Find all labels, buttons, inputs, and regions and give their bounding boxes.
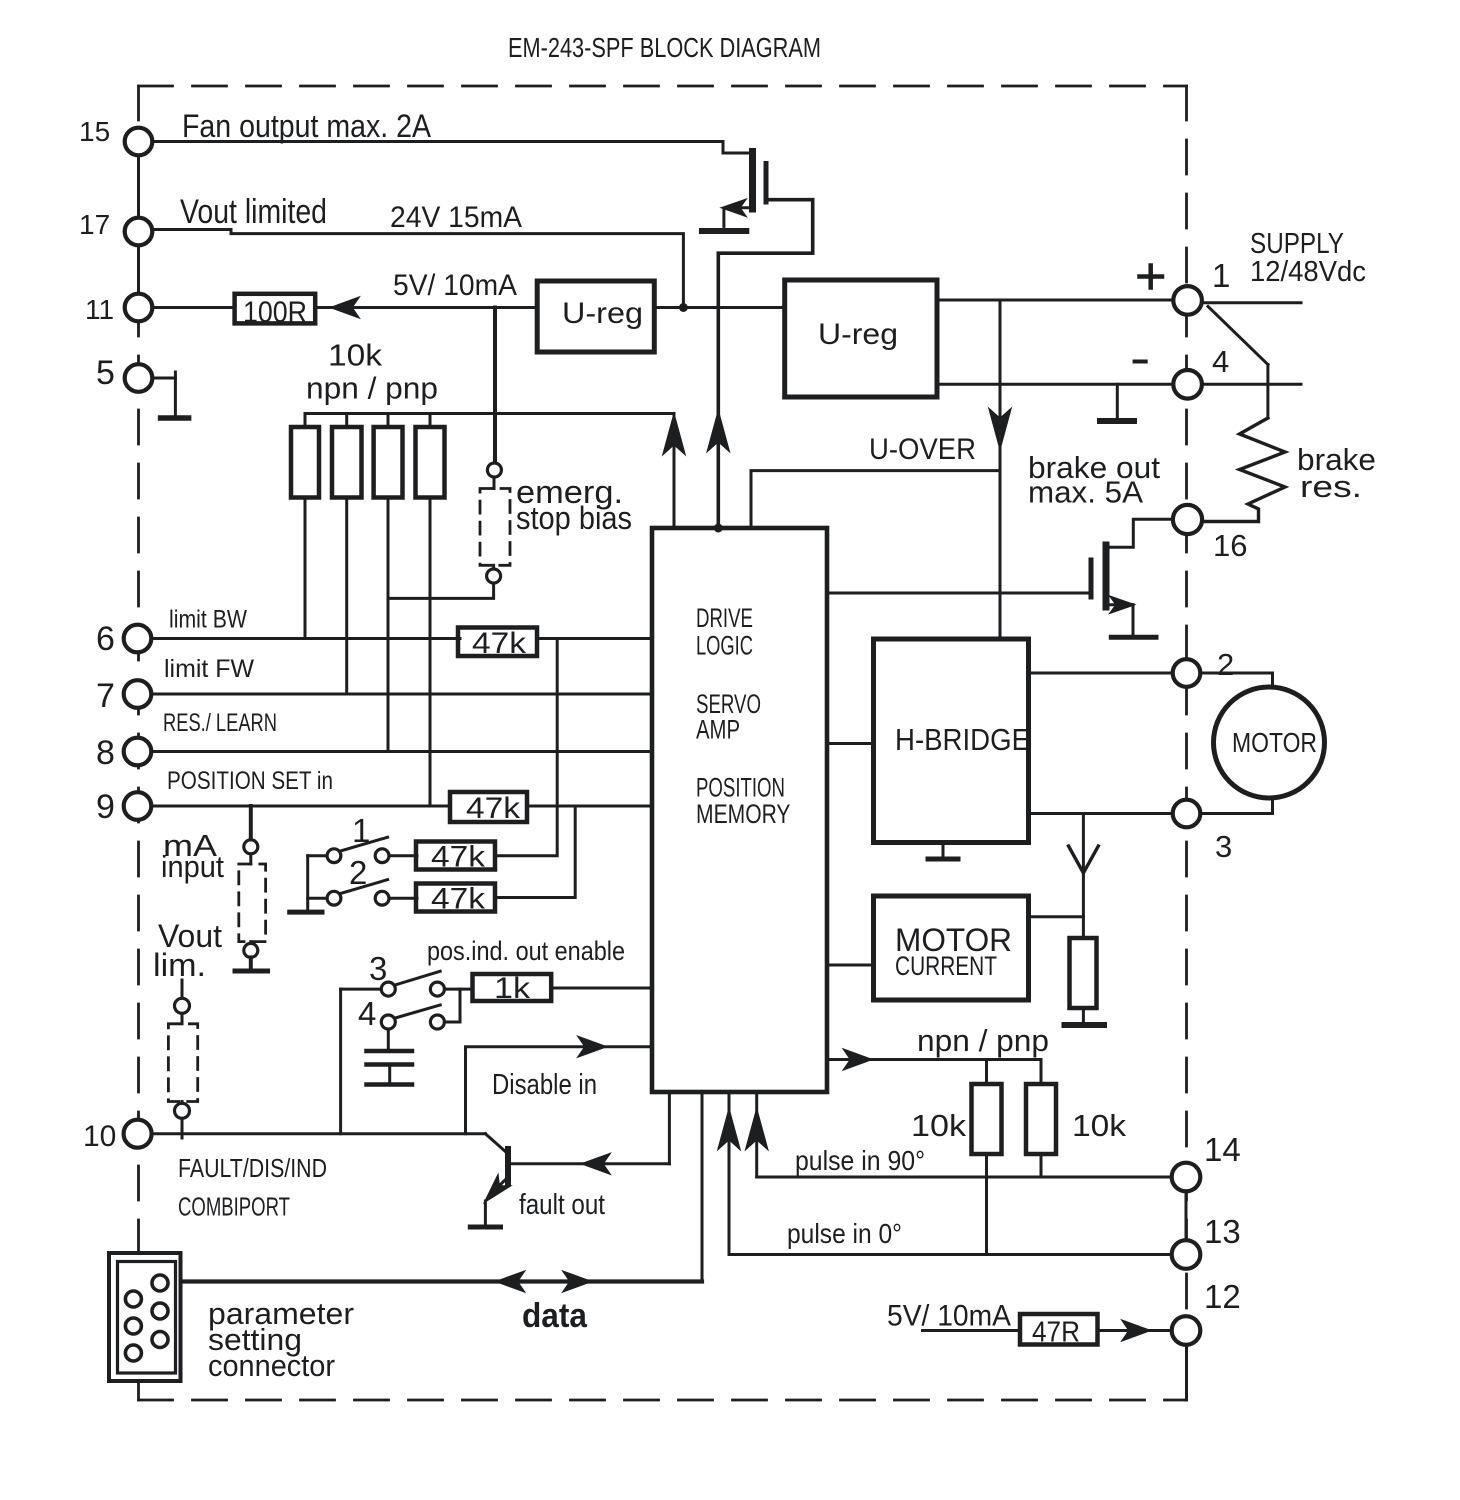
transistor Q1 fan switch channel bbox=[749, 152, 756, 210]
junction dot gate riser at drive logic top bbox=[714, 524, 723, 533]
wire R4 to pin9 line bbox=[429, 414, 432, 428]
wire pin4 minus rail bbox=[937, 383, 1174, 386]
wire mA input drop bbox=[249, 806, 253, 840]
transistor Q3 source with arrow bbox=[1106, 603, 1133, 606]
wire pin1 supply stub bbox=[1201, 301, 1302, 304]
svg-text:6: 6 bbox=[96, 620, 115, 658]
arrow up into drive logic (bus line) bbox=[665, 417, 684, 452]
resistor 10k R4 bbox=[416, 427, 445, 498]
svg-text:10k: 10k bbox=[911, 1108, 967, 1143]
label brake res. bbox=[1297, 442, 1376, 504]
ground fault out emitter bbox=[470, 1225, 500, 1230]
label 24V 15mA bbox=[390, 201, 522, 234]
wire switch3 common riser to combiport bbox=[339, 989, 342, 1134]
svg-text:connector: connector bbox=[208, 1348, 335, 1383]
svg-text:res.: res. bbox=[1300, 469, 1362, 504]
svg-text:5: 5 bbox=[96, 354, 115, 392]
svg-text:FAULT/DIS/IND: FAULT/DIS/IND bbox=[178, 1153, 327, 1183]
arrow left on 5V rail bbox=[333, 299, 357, 316]
svg-text:11: 11 bbox=[85, 294, 114, 325]
svg-text:7: 7 bbox=[96, 677, 115, 715]
svg-text:8: 8 bbox=[96, 734, 115, 772]
wire motor sense drop bbox=[1082, 814, 1085, 939]
wire H-BRIDGE to pin2 bbox=[1029, 672, 1174, 675]
svg-text:EM-243-SPF BLOCK DIAGRAM: EM-243-SPF BLOCK DIAGRAM bbox=[508, 32, 821, 63]
svg-text:24V 15mA: 24V 15mA bbox=[390, 201, 522, 234]
label Vout lim. bbox=[153, 918, 222, 983]
resistor 10k R3 bbox=[374, 427, 403, 498]
svg-text:LOGIC: LOGIC bbox=[696, 631, 753, 661]
wire pin15 fan output bbox=[152, 142, 750, 154]
svg-text:Vout limited: Vout limited bbox=[180, 193, 327, 231]
svg-text:10k: 10k bbox=[328, 338, 383, 373]
svg-text:47k: 47k bbox=[431, 841, 486, 874]
wire pin11 to 100R bbox=[152, 306, 235, 309]
svg-text:47k: 47k bbox=[431, 883, 486, 916]
resistor 47k (switch1) bbox=[416, 842, 495, 870]
svg-text:3: 3 bbox=[1215, 829, 1232, 864]
resistor 47k (pin6) bbox=[458, 628, 537, 657]
resistor 10k pulse left bbox=[985, 1060, 988, 1085]
Vout lim dashed resistor bbox=[168, 1024, 197, 1102]
switch 2 bbox=[308, 897, 327, 900]
svg-text:Disable in: Disable in bbox=[492, 1069, 597, 1101]
pin 15 bbox=[125, 128, 153, 156]
svg-text:12/48Vdc: 12/48Vdc bbox=[1250, 256, 1366, 288]
pin 1 bbox=[1173, 286, 1202, 315]
svg-text:1k: 1k bbox=[494, 972, 531, 1005]
label parameter setting connector bbox=[208, 1296, 354, 1383]
svg-text:MEMORY: MEMORY bbox=[696, 799, 791, 829]
ground capacitor bbox=[367, 1082, 413, 1087]
arrow up into drive logic (q1 gate line) bbox=[709, 414, 728, 449]
svg-text:Fan output max. 2A: Fan output max. 2A bbox=[182, 108, 432, 144]
svg-text:10: 10 bbox=[83, 1120, 116, 1153]
label Vout limited bbox=[180, 193, 327, 231]
wire pulse in 90 bbox=[757, 1176, 1173, 1179]
transistor Q2 fault out bbox=[485, 1134, 506, 1153]
wire brake gate bbox=[827, 592, 1091, 595]
svg-text:U-reg: U-reg bbox=[562, 297, 643, 330]
wire pin10 combiport bbox=[152, 1132, 486, 1135]
svg-text:4: 4 bbox=[358, 995, 376, 1032]
pin 4 bbox=[1173, 370, 1202, 399]
svg-text:input: input bbox=[161, 849, 224, 884]
resistor 47R bbox=[1020, 1314, 1098, 1345]
wire U-OVER bbox=[751, 471, 1000, 527]
ground pin5 bbox=[161, 415, 189, 421]
svg-text:13: 13 bbox=[1204, 1213, 1241, 1250]
svg-text:pulse in 90°: pulse in 90° bbox=[795, 1145, 925, 1176]
wire U2 output to pin1 bbox=[937, 299, 1174, 302]
title bbox=[508, 32, 821, 63]
wire data riser bbox=[701, 1092, 704, 1281]
svg-text:16: 16 bbox=[1213, 528, 1247, 563]
regulator U2 U-reg main bbox=[785, 280, 937, 397]
transistor Q3 brake gate bar bbox=[1089, 560, 1094, 597]
pin 13 bbox=[1172, 1240, 1201, 1269]
node mA input top bbox=[244, 840, 258, 854]
ground mA input bbox=[235, 969, 268, 974]
emerg stop bias dashed resistor bbox=[480, 489, 510, 566]
svg-text:14: 14 bbox=[1204, 1131, 1241, 1168]
resistor 10k R2 bbox=[332, 427, 362, 498]
mA input dashed resistor bbox=[239, 864, 266, 942]
wire emerg drop from 5V rail bbox=[493, 308, 497, 464]
label minus bbox=[1135, 360, 1146, 364]
svg-text:5V/ 10mA: 5V/ 10mA bbox=[887, 1300, 1011, 1333]
svg-text:3: 3 bbox=[369, 950, 387, 987]
wire Disable in bbox=[466, 1047, 652, 1134]
svg-text:npn / pnp: npn / pnp bbox=[306, 371, 438, 406]
wire 47k sw1 riser to pin6 line bbox=[495, 639, 557, 856]
transistor Q1 source terminal bar bbox=[702, 228, 746, 234]
label SUPPLY 12/48Vdc bbox=[1250, 228, 1366, 288]
wire fault out collector bbox=[508, 1162, 669, 1165]
label 5V/ 10mA bbox=[393, 269, 517, 302]
resistor brake res zigzag bbox=[1201, 418, 1285, 522]
ground switches 1-2 bbox=[290, 910, 322, 915]
pin 9 bbox=[124, 792, 152, 820]
node mA input bottom bbox=[244, 943, 258, 957]
wire npn/pnp pulse bus bbox=[827, 1058, 1041, 1061]
svg-text:pulse in 0°: pulse in 0° bbox=[787, 1218, 902, 1249]
svg-text:2: 2 bbox=[1217, 647, 1234, 682]
switch 3 bbox=[341, 988, 382, 991]
svg-text:limit FW: limit FW bbox=[164, 655, 254, 683]
junction dot 24V to 5V rail bbox=[679, 303, 688, 312]
wire pulse in 0 bbox=[729, 1253, 1173, 1256]
wire R2 to pin7 line bbox=[345, 414, 348, 428]
label emerg. stop bias bbox=[516, 474, 632, 536]
svg-text:2: 2 bbox=[349, 854, 367, 891]
wire pin17 24V line bbox=[152, 230, 684, 308]
svg-text:DRIVE: DRIVE bbox=[696, 603, 753, 633]
wire pulse90 riser bbox=[755, 1092, 758, 1177]
svg-text:17: 17 bbox=[79, 209, 110, 240]
pin 5 bbox=[125, 364, 153, 392]
ground minus rail bbox=[1116, 384, 1119, 417]
label COMBIPORT bbox=[178, 1192, 290, 1222]
connector J1 parameter setting bbox=[109, 1253, 181, 1381]
label FAULT/DIS/IND bbox=[178, 1153, 327, 1183]
wire pin8 RES./LEARN bbox=[152, 750, 652, 753]
block H-BRIDGE bbox=[874, 639, 1029, 843]
svg-text:COMBIPORT: COMBIPORT bbox=[178, 1192, 290, 1222]
wire 5V rail right bbox=[654, 306, 784, 309]
svg-text:1: 1 bbox=[352, 812, 370, 849]
svg-text:1: 1 bbox=[1212, 257, 1230, 294]
wire MOTOR CURRENT to sense bbox=[1029, 915, 1084, 918]
wire R3 to pin8 line bbox=[387, 414, 390, 428]
svg-text:stop bias: stop bias bbox=[516, 500, 632, 536]
svg-text:CURRENT: CURRENT bbox=[895, 951, 997, 981]
transistor Q3 drain to pin16 bbox=[1106, 519, 1172, 547]
pin 12 bbox=[1172, 1316, 1201, 1345]
wire switch 3/4 outputs join bbox=[444, 988, 472, 991]
wire pin1 to brake resistor bbox=[1208, 307, 1268, 365]
node Vout lim top bbox=[175, 998, 190, 1013]
block DRIVE LOGIC / SERVO AMP / POSITION MEMORY bbox=[652, 528, 827, 1092]
pin 16 bbox=[1173, 505, 1202, 534]
svg-text:47k: 47k bbox=[466, 792, 521, 825]
label limit BW bbox=[169, 606, 247, 634]
pin 6 bbox=[124, 625, 152, 653]
transistor Q1 gate lead bbox=[718, 200, 812, 527]
wire pin7 limit FW bbox=[152, 693, 652, 696]
transistor Q1 gate bar bbox=[764, 164, 769, 203]
block MOTOR CURRENT bbox=[874, 896, 1029, 1000]
svg-text:U-OVER: U-OVER bbox=[869, 433, 976, 466]
resistor current sense bbox=[1070, 938, 1097, 1008]
regulator U1 U-reg small bbox=[537, 281, 654, 352]
resistor 10k pulse right bbox=[1040, 1060, 1043, 1085]
svg-text:data: data bbox=[522, 1297, 588, 1335]
pin 10 bbox=[124, 1120, 152, 1148]
wire fault riser bbox=[668, 1092, 671, 1164]
wire pin4 supply stub bbox=[1201, 383, 1302, 386]
svg-text:100R: 100R bbox=[243, 296, 307, 329]
svg-text:U-reg: U-reg bbox=[818, 318, 898, 351]
wire R1 to pin6 line bbox=[304, 414, 307, 428]
svg-text:AMP: AMP bbox=[696, 715, 740, 745]
resistor 1k bbox=[473, 974, 552, 1001]
svg-text:pos.ind. out enable: pos.ind. out enable bbox=[427, 936, 625, 966]
wire pin3 to motor bbox=[1200, 799, 1273, 814]
pin 17 bbox=[125, 218, 153, 246]
switch 4 bbox=[381, 1015, 395, 1029]
wire pin6 limit BW bbox=[152, 637, 461, 640]
label pos.ind. out enable bbox=[427, 936, 625, 966]
node Vout lim bottom bbox=[175, 1103, 190, 1118]
ground current sense bbox=[1065, 1022, 1105, 1028]
transistor Q2 emitter with arrow bbox=[496, 1177, 508, 1189]
pin 2 bbox=[1173, 659, 1201, 687]
transistor Q3 brake channel bbox=[1103, 545, 1110, 607]
svg-text:12: 12 bbox=[1204, 1278, 1241, 1315]
svg-text:lim.: lim. bbox=[153, 947, 206, 983]
svg-text:fault out: fault out bbox=[519, 1189, 605, 1221]
svg-text:15: 15 bbox=[79, 116, 110, 147]
pin 3 bbox=[1173, 800, 1201, 828]
svg-text:npn / pnp: npn / pnp bbox=[917, 1023, 1049, 1058]
wire switch common bbox=[306, 856, 309, 912]
wire emerg bottom to R3 lead bbox=[388, 583, 494, 598]
resistor 47k (pin9) bbox=[450, 792, 527, 822]
wire drive logic to MOTOR CURRENT bbox=[827, 964, 874, 967]
wire H-BRIDGE to pin3 bbox=[1029, 812, 1174, 815]
transistor Q1 source lead with arrow bbox=[727, 206, 753, 209]
wire pin5 to ground bbox=[152, 378, 176, 416]
wire data bus bbox=[183, 1279, 703, 1283]
solid border segment pin 12 to corner bbox=[1185, 1344, 1188, 1400]
pin 11 bbox=[125, 294, 153, 322]
svg-text:max. 5A: max. 5A bbox=[1028, 475, 1143, 510]
wire pin9 POSITION SET in bbox=[152, 805, 451, 808]
dashed enclosure border bbox=[139, 86, 1187, 1400]
svg-text:5V/ 10mA: 5V/ 10mA bbox=[393, 269, 517, 302]
wire npn/pnp bus bbox=[305, 414, 674, 528]
wire drive logic to H-BRIDGE bbox=[827, 742, 874, 745]
label brake out max. 5A bbox=[1028, 450, 1160, 510]
label plus bbox=[1140, 274, 1163, 279]
label Fan output max. 2A bbox=[182, 108, 432, 144]
capacitor C1 (switch4 to ground) bbox=[387, 1029, 390, 1050]
ground H-BRIDGE bbox=[942, 843, 945, 857]
label mA input bbox=[161, 828, 224, 884]
wire pin2 to motor bbox=[1200, 673, 1273, 687]
svg-text:47k: 47k bbox=[472, 627, 527, 660]
label npn / pnp bbox=[306, 371, 438, 406]
label 10k bbox=[328, 338, 383, 373]
pin 7 bbox=[124, 680, 152, 708]
node emerg stop bias bottom bbox=[487, 569, 501, 583]
svg-text:POSITION SET in: POSITION SET in bbox=[167, 767, 333, 795]
ground brake source bbox=[1111, 635, 1156, 640]
wire 47k sw2 riser to pin9 line bbox=[495, 806, 575, 898]
svg-text:47R: 47R bbox=[1032, 1317, 1080, 1349]
resistor 100R bbox=[235, 294, 316, 324]
pin 14 bbox=[1172, 1163, 1201, 1192]
wire supply down to H-BRIDGE bbox=[999, 300, 1002, 639]
svg-text:limit BW: limit BW bbox=[169, 606, 247, 634]
switch 1 bbox=[308, 854, 327, 857]
solid border segment pins 15-11 bbox=[137, 142, 140, 308]
svg-text:MOTOR: MOTOR bbox=[1232, 727, 1317, 758]
solid border segment pins 14-12 bbox=[1185, 1177, 1188, 1255]
svg-text:9: 9 bbox=[96, 788, 115, 826]
resistor 10k R1 bbox=[291, 427, 319, 498]
svg-text:10k: 10k bbox=[1072, 1108, 1127, 1143]
node emerg stop bias top bbox=[487, 463, 501, 477]
svg-text:POSITION: POSITION bbox=[696, 773, 785, 803]
motor M1 bbox=[1214, 687, 1325, 798]
svg-text:RES./ LEARN: RES./ LEARN bbox=[163, 709, 277, 737]
svg-text:4: 4 bbox=[1212, 344, 1229, 379]
svg-text:H-BRIDGE: H-BRIDGE bbox=[895, 722, 1030, 757]
Vout lim node stem bbox=[181, 980, 184, 999]
wire 5V to pin12 bbox=[923, 1329, 1021, 1332]
resistor 47k (switch2) bbox=[416, 884, 495, 912]
wire pulse0 riser bbox=[728, 1092, 731, 1255]
pin 8 bbox=[124, 738, 152, 766]
wire 5V rail left bbox=[315, 306, 537, 309]
